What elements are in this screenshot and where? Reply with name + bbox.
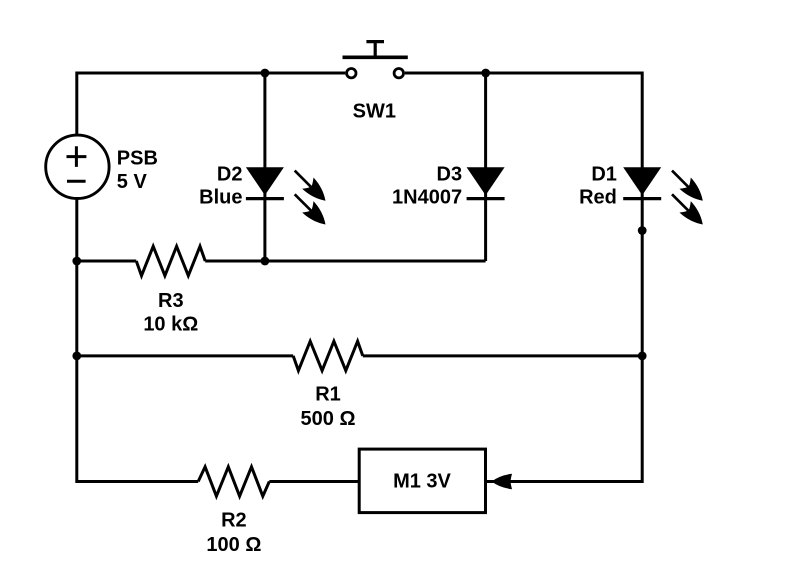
switch SW1 right terminal	[394, 69, 403, 78]
svg-text:PSB: PSB	[117, 147, 158, 169]
svg-text:R2: R2	[221, 510, 247, 532]
junction dot: top wire / D2 branch	[261, 69, 270, 78]
LED D1 light arrow upper	[672, 171, 708, 207]
voltage source plus sign	[67, 146, 87, 167]
junction dot: right rail below D1	[638, 226, 647, 235]
svg-text:1N4007: 1N4007	[392, 186, 462, 208]
voltage source minus sign	[67, 180, 86, 183]
resistor R3	[136, 246, 205, 275]
wire: R2 right lead to M1 box	[269, 480, 359, 483]
wire: top-left rail (source top to SW1 left terminal)	[77, 73, 346, 136]
switch SW1 plunger top bar	[366, 40, 384, 43]
svg-text:M1 3V: M1 3V	[393, 470, 451, 492]
junction dot: left rail / R3 row	[72, 257, 81, 266]
wire: SW1 right terminal along top, down right rail to M1	[405, 73, 642, 482]
svg-text:100 Ω: 100 Ω	[206, 534, 261, 556]
junction dot: D2 branch / R3 row	[261, 257, 270, 266]
switch SW1 actuator bar	[343, 55, 408, 59]
svg-text:Blue: Blue	[199, 186, 242, 208]
svg-text:10 kΩ: 10 kΩ	[143, 314, 198, 336]
junction dot: top wire / D3 branch	[481, 69, 490, 78]
svg-text:5 V: 5 V	[117, 171, 148, 193]
LED D2 triangle	[246, 167, 284, 195]
LED D2 light arrow upper	[295, 171, 331, 207]
LED D1 light arrow lower	[672, 194, 708, 230]
switch SW1 left terminal	[347, 69, 356, 78]
arrowhead into M1	[492, 474, 513, 489]
svg-text:D1: D1	[591, 163, 617, 185]
junction dot: right rail / R1 row	[638, 352, 647, 361]
wire: left rail below source, bottom wire to R2	[77, 197, 198, 482]
svg-text:Red: Red	[579, 186, 617, 208]
svg-text:R1: R1	[315, 383, 341, 405]
LED D2 light arrow lower	[295, 194, 331, 230]
motor M1 box	[359, 449, 485, 512]
wire: D2 branch vertical	[263, 73, 266, 261]
LED D2 cathode bar	[246, 197, 284, 200]
wire: R3 right lead to D3 branch	[205, 260, 485, 263]
wire: R3 left lead	[77, 260, 137, 263]
wire: R1 left lead from left rail	[77, 354, 293, 357]
svg-text:500 Ω: 500 Ω	[301, 408, 356, 430]
junction dot: left rail / R1 row	[72, 352, 81, 361]
svg-text:D2: D2	[217, 163, 243, 185]
diode D3 triangle	[467, 167, 505, 195]
svg-text:R3: R3	[158, 290, 184, 312]
resistor R2	[198, 467, 269, 496]
resistor R1	[293, 341, 363, 370]
LED D1 cathode bar	[623, 197, 661, 200]
svg-text:D3: D3	[437, 163, 463, 185]
voltage source PSB circle	[46, 135, 109, 198]
LED D1 triangle	[623, 167, 661, 195]
wire: R1 right lead to right rail	[363, 354, 642, 357]
switch SW1 plunger stem	[374, 42, 377, 56]
wire: D3 branch vertical	[484, 73, 487, 261]
diode D3 cathode bar	[467, 197, 505, 200]
svg-text:SW1: SW1	[353, 101, 396, 123]
